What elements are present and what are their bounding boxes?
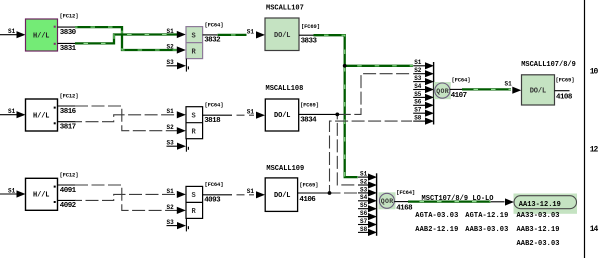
svg-text:[FC64]: [FC64] <box>396 189 415 196</box>
svg-text:DO/L: DO/L <box>274 112 291 120</box>
svg-text:4092: 4092 <box>60 202 77 210</box>
svg-text:4106: 4106 <box>299 196 316 204</box>
svg-text:AAB3-12.19: AAB3-12.19 <box>517 226 560 234</box>
svg-text:DO/L: DO/L <box>274 32 291 40</box>
svg-text:MSCALL107: MSCALL107 <box>266 5 304 13</box>
svg-text:S1: S1 <box>8 108 16 115</box>
svg-text:14: 14 <box>590 225 599 234</box>
svg-text:[FC69]: [FC69] <box>299 181 318 188</box>
svg-text:AAB2-03.03: AAB2-03.03 <box>517 240 560 248</box>
svg-text:12: 12 <box>590 146 599 155</box>
svg-text:[FC69]: [FC69] <box>556 77 575 84</box>
svg-text:DO/L: DO/L <box>530 88 547 96</box>
svg-text:QOR: QOR <box>436 88 448 95</box>
svg-text:[FC69]: [FC69] <box>301 23 320 30</box>
svg-text:S3: S3 <box>167 140 175 147</box>
svg-text:QOR: QOR <box>381 198 393 205</box>
svg-text:S6: S6 <box>414 99 422 106</box>
svg-text:[FC64]: [FC64] <box>205 21 224 28</box>
svg-text:3817: 3817 <box>60 124 76 132</box>
svg-text:MSCALL109: MSCALL109 <box>266 165 304 173</box>
svg-text:[FC12]: [FC12] <box>60 172 79 179</box>
svg-text:[FC12]: [FC12] <box>60 12 79 19</box>
svg-text:S: S <box>192 32 196 40</box>
svg-text:DO/L: DO/L <box>274 192 291 200</box>
svg-text:4093: 4093 <box>204 196 221 204</box>
svg-text:MSCALL108: MSCALL108 <box>266 85 304 93</box>
svg-text:S2: S2 <box>167 204 175 211</box>
svg-text:3833: 3833 <box>301 37 318 45</box>
svg-text:3834: 3834 <box>300 116 317 124</box>
svg-text:10: 10 <box>590 68 599 77</box>
svg-text:S1: S1 <box>414 59 422 66</box>
svg-text:AGTA-12.19: AGTA-12.19 <box>465 212 508 220</box>
svg-text:S2: S2 <box>167 43 175 50</box>
svg-text:H//L: H//L <box>33 192 50 200</box>
svg-text:S3: S3 <box>167 59 175 66</box>
svg-text:3818: 3818 <box>204 117 221 125</box>
svg-text:4091: 4091 <box>60 187 77 195</box>
svg-text:MSCALL107/8/9: MSCALL107/8/9 <box>521 61 576 69</box>
svg-text:AA33-03.03: AA33-03.03 <box>517 212 560 220</box>
svg-text:AAB3-03.03: AAB3-03.03 <box>465 226 508 234</box>
svg-text:S1: S1 <box>167 28 175 35</box>
svg-text:S5: S5 <box>414 91 422 98</box>
svg-text:[FC64]: [FC64] <box>452 76 471 83</box>
svg-text:S8: S8 <box>360 226 368 233</box>
svg-text:MSCT107/8/9 LO-LO: MSCT107/8/9 LO-LO <box>422 195 494 203</box>
svg-text:S7: S7 <box>360 218 368 225</box>
svg-text:S1: S1 <box>247 109 255 116</box>
svg-text:S2: S2 <box>167 124 175 131</box>
svg-text:3831: 3831 <box>60 45 77 53</box>
svg-text:[FC69]: [FC69] <box>300 102 319 109</box>
svg-text:AGTA-03.03: AGTA-03.03 <box>415 212 458 220</box>
svg-text:S3: S3 <box>360 186 368 193</box>
svg-text:S1: S1 <box>247 28 255 35</box>
svg-text:3832: 3832 <box>204 37 221 45</box>
svg-text:AAB2-12.19: AAB2-12.19 <box>415 226 458 234</box>
svg-text:S1: S1 <box>8 28 16 35</box>
svg-text:4108: 4108 <box>556 93 573 101</box>
svg-text:H//L: H//L <box>33 32 50 40</box>
svg-text:S4: S4 <box>360 194 368 201</box>
svg-text:S: S <box>192 113 196 121</box>
svg-text:S3: S3 <box>167 219 175 226</box>
svg-text:[FC12]: [FC12] <box>60 92 79 99</box>
svg-text:S5: S5 <box>360 202 368 209</box>
svg-text:4168: 4168 <box>396 205 413 213</box>
svg-text:S2: S2 <box>414 67 422 74</box>
svg-text:S4: S4 <box>414 83 422 90</box>
svg-text:S3: S3 <box>414 75 422 82</box>
svg-text:S1: S1 <box>247 188 255 195</box>
svg-text:S1: S1 <box>167 108 175 115</box>
svg-text:S1: S1 <box>360 171 368 178</box>
svg-text:3816: 3816 <box>60 108 77 116</box>
svg-text:S1: S1 <box>505 80 513 87</box>
svg-text:[FC64]: [FC64] <box>205 181 224 188</box>
svg-text:[FC64]: [FC64] <box>205 101 224 108</box>
svg-text:S: S <box>192 192 196 200</box>
svg-text:S1: S1 <box>167 188 175 195</box>
svg-text:S2: S2 <box>360 178 368 185</box>
svg-text:3830: 3830 <box>60 29 77 37</box>
svg-text:S8: S8 <box>414 115 422 122</box>
svg-text:AA13-12.19: AA13-12.19 <box>519 201 561 209</box>
svg-text:S7: S7 <box>414 107 422 114</box>
svg-text:S1: S1 <box>8 187 16 194</box>
svg-text:S6: S6 <box>360 210 368 217</box>
svg-text:4107: 4107 <box>451 92 467 100</box>
svg-text:H//L: H//L <box>33 112 50 120</box>
